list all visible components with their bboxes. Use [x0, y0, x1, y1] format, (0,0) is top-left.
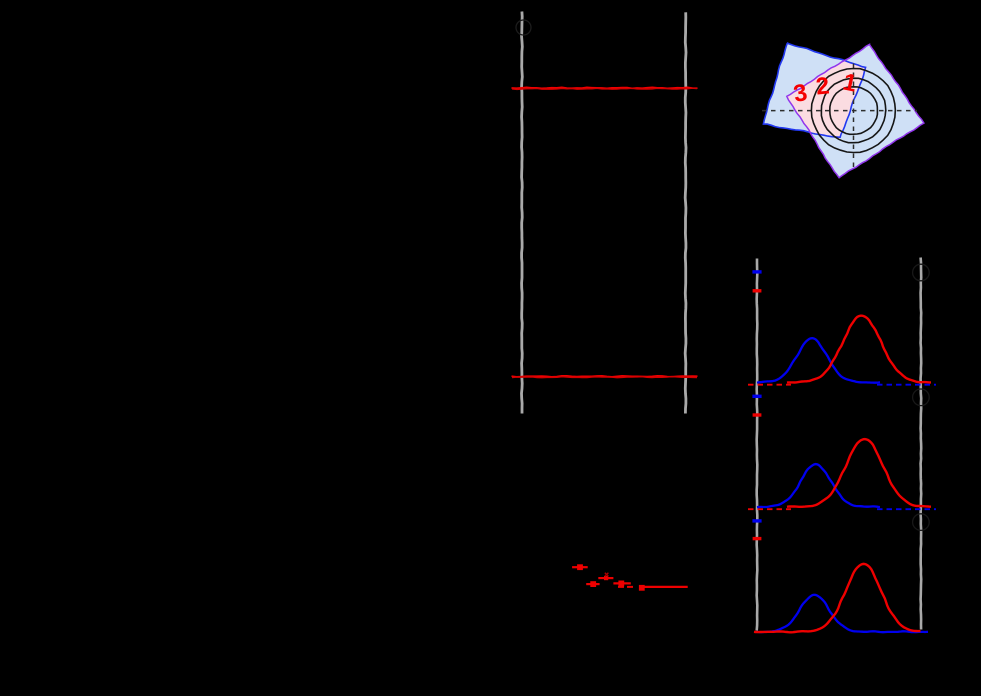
panel 1 red dashed tail	[748, 384, 791, 386]
data point 3 marker	[604, 576, 608, 580]
panel right axis line	[919, 258, 922, 630]
inset square 2 (purple frame) fill	[787, 44, 924, 177]
svg-text:2: 2	[815, 72, 831, 100]
panel 3 red tick	[753, 537, 762, 540]
panel 2 red tick	[753, 413, 762, 416]
data point 1 error bar	[572, 566, 588, 568]
panel 1 red tick	[753, 289, 762, 292]
panel 2 red dashed tail	[748, 508, 791, 510]
inset square 1 (blue frame) fill	[763, 43, 865, 137]
overlap region (pink)	[787, 60, 867, 139]
panel 3 blue tick	[752, 519, 761, 522]
panel 3 red gaussian	[754, 564, 921, 632]
faint circle marker left wall top	[516, 20, 531, 35]
data point 5 error bar	[640, 586, 688, 588]
panel 1 blue dashed tail	[877, 384, 936, 386]
panel left axis line	[755, 259, 758, 631]
small cross above point 3	[605, 573, 609, 576]
red beam line top	[512, 87, 698, 88]
left detector wall	[520, 12, 524, 414]
panel 2 blue gaussian	[757, 464, 880, 507]
data point 1 marker	[577, 564, 583, 570]
panel 1 blue tick	[752, 270, 761, 273]
panel 2 faint circle marker	[913, 389, 930, 406]
panel 3 blue gaussian	[757, 595, 928, 632]
panel 1 blue gaussian	[757, 338, 880, 383]
data point 5 marker	[639, 585, 645, 591]
dashed horizontal axis	[762, 110, 917, 112]
square 2 purple outline	[787, 44, 924, 177]
dashed connector near point 4	[618, 586, 635, 588]
data point 4 error bar	[613, 582, 630, 584]
data point 3 error bar	[598, 577, 613, 579]
panel 1 faint circle marker	[913, 264, 930, 281]
panel 2 red gaussian	[787, 439, 931, 507]
panel 3 faint circle marker	[913, 514, 930, 531]
data point 2 marker	[590, 581, 596, 587]
beam ring 2	[821, 78, 885, 143]
panel 2 blue dashed tail	[877, 508, 936, 510]
panel 1 red gaussian	[787, 316, 931, 383]
data point 4 marker	[618, 581, 624, 587]
panel 2 blue tick	[752, 395, 761, 398]
red beam line bottom	[512, 376, 698, 377]
dashed vertical axis	[853, 64, 855, 172]
data point 2 error bar	[586, 583, 599, 585]
beam ring 3	[811, 69, 895, 153]
right detector wall	[684, 12, 688, 413]
square 1 blue outline	[763, 43, 865, 137]
beam ring 1	[830, 87, 878, 135]
